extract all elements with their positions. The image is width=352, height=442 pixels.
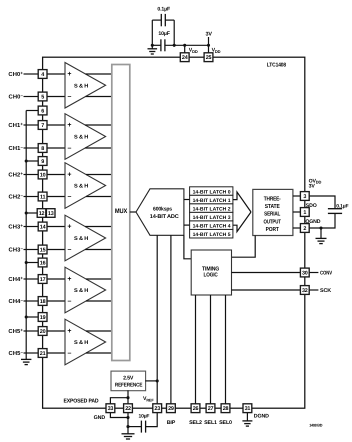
wire OGND ground stub — [320, 228, 322, 238]
svg-text:10µF: 10µF — [158, 31, 169, 37]
svg-text:16: 16 — [40, 261, 46, 267]
ground (pin22) — [122, 433, 135, 435]
svg-text:3V: 3V — [309, 184, 316, 190]
pin 17 — [38, 275, 47, 284]
pin 22 — [124, 404, 133, 413]
wire cap to pin2 — [309, 213, 335, 228]
wire port to pin2 — [293, 227, 301, 229]
wire bus stub y161 — [26, 160, 38, 162]
svg-text:VDD: VDD — [212, 48, 221, 54]
wire bus stub y262.5 — [26, 262, 38, 264]
svg-text:SEL2: SEL2 — [189, 420, 202, 426]
wire 0.1uF left lead — [152, 19, 161, 21]
wire S&H4 out- — [85, 249, 112, 251]
junction pin25 rail — [207, 44, 210, 47]
junction pin24 rail — [183, 44, 186, 47]
pin 1 — [300, 208, 309, 217]
wire cap10u left lead — [128, 426, 141, 428]
svg-text:BIP: BIP — [167, 420, 176, 426]
wire stub pin24 — [184, 45, 186, 53]
svg-text:STATE: STATE — [265, 203, 280, 210]
wire label CH0 to pin — [24, 73, 39, 75]
svg-text:14-BIT LATCH 5: 14-BIT LATCH 5 — [193, 232, 231, 238]
svg-text:10: 10 — [40, 173, 46, 179]
svg-text:S & H: S & H — [74, 340, 88, 346]
wire pin31 gnd stub — [246, 413, 248, 421]
wire 0.1uF right lead — [165, 19, 174, 21]
pin 16 — [38, 258, 47, 267]
svg-text:7: 7 — [41, 123, 44, 129]
svg-text:30: 30 — [302, 271, 308, 277]
wire S&H6 out- — [86, 352, 112, 354]
svg-text:S & H: S & H — [74, 135, 88, 141]
wire cap10u right lead — [146, 413, 158, 427]
svg-text:28: 28 — [223, 406, 229, 412]
svg-text:–: – — [68, 94, 72, 101]
op-amp S&H 4 — [65, 215, 106, 261]
pin 33 GND — [106, 404, 115, 413]
pin 12 — [37, 209, 46, 218]
svg-text:0.1µF: 0.1µF — [157, 7, 170, 13]
junction bus y213 — [25, 211, 28, 214]
svg-text:33: 33 — [108, 406, 114, 412]
pin 31 DGND — [243, 404, 252, 413]
wire pin18 to S&H — [47, 300, 65, 302]
pin 6 — [38, 106, 47, 115]
svg-text:9: 9 — [41, 159, 44, 165]
svg-text:+: + — [67, 224, 71, 231]
svg-text:OUTPUT: OUTPUT — [264, 218, 282, 225]
svg-text:SEL1: SEL1 — [204, 420, 217, 426]
svg-text:2.5V: 2.5V — [123, 376, 134, 382]
svg-text:19: 19 — [40, 315, 46, 321]
wire pin20 to S&H — [47, 330, 65, 332]
MUX block — [112, 65, 130, 361]
pin 14 — [38, 222, 47, 231]
svg-text:–: – — [68, 298, 72, 305]
wire pin32 stub — [309, 289, 318, 291]
junction OGND — [319, 226, 322, 229]
pin 32 — [300, 286, 309, 295]
svg-text:8: 8 — [41, 146, 44, 152]
svg-text:27: 27 — [208, 406, 214, 412]
wire right node up — [173, 20, 175, 46]
svg-text:CONV: CONV — [320, 271, 332, 277]
svg-text:10µF: 10µF — [138, 413, 149, 419]
op-amp S&H 2 — [65, 114, 106, 160]
wire left node up — [151, 20, 153, 46]
block 2.5V reference — [111, 371, 146, 391]
ground (common bus) — [21, 358, 31, 360]
wire pin33 up stub — [110, 398, 128, 404]
svg-text:DGND: DGND — [254, 414, 269, 420]
pin 5 — [38, 92, 47, 101]
wire timing to pin30 — [232, 272, 301, 274]
wire label CH1 to pin — [24, 124, 39, 126]
svg-text:0.1µF: 0.1µF — [336, 203, 348, 209]
pin 4 — [38, 70, 47, 79]
pin 23 VREF — [153, 404, 162, 413]
register 14-BIT LATCH 1 — [190, 195, 233, 204]
wire VDD rail right segment — [165, 44, 209, 46]
wire pin4 to S&H — [47, 73, 65, 75]
svg-text:29: 29 — [168, 406, 174, 412]
register 14-BIT LATCH 5 — [190, 229, 233, 238]
ground (OGND) — [316, 237, 327, 239]
pin 10 — [38, 170, 47, 179]
wire S&H1 out+ — [86, 73, 112, 75]
svg-text:14-BIT LATCH 1: 14-BIT LATCH 1 — [193, 198, 231, 204]
junction pin22 a — [126, 416, 129, 419]
svg-text:12: 12 — [39, 211, 45, 217]
pin 21 — [38, 349, 47, 358]
wire port to timing — [232, 236, 256, 258]
svg-text:S & H: S & H — [74, 288, 88, 294]
svg-text:14-BIT LATCH 3: 14-BIT LATCH 3 — [193, 215, 231, 221]
svg-text:+: + — [67, 328, 71, 335]
wire timing to pin32 — [232, 289, 301, 291]
wire MUX to ADC — [130, 211, 137, 213]
pin 28 SEL0 — [221, 404, 230, 413]
junction bus y262.5 — [25, 261, 28, 264]
junction bus y161 — [25, 159, 28, 162]
svg-text:22: 22 — [125, 406, 131, 412]
capacitor 0.1uF (top) — [160, 14, 162, 26]
svg-text:14-BIT ADC: 14-BIT ADC — [150, 214, 179, 220]
wire pin10 to S&H — [47, 174, 65, 176]
wire reference gnd down — [127, 390, 129, 404]
pin 20 — [38, 327, 47, 336]
svg-text:–: – — [68, 247, 72, 254]
wire label CH2 to pin — [24, 196, 39, 198]
svg-text:24: 24 — [182, 55, 188, 61]
block three-state serial output port — [253, 189, 293, 235]
svg-text:18: 18 — [40, 299, 46, 305]
svg-text:EXPOSED PAD: EXPOSED PAD — [64, 399, 99, 405]
wire gnd stub top — [151, 45, 153, 49]
pin 9 — [38, 157, 47, 166]
junction VREF — [156, 379, 159, 382]
svg-text:REFERENCE: REFERENCE — [115, 382, 143, 388]
svg-text:31: 31 — [245, 406, 251, 412]
register 14-BIT LATCH 2 — [190, 204, 233, 213]
svg-text:SEL0: SEL0 — [219, 420, 232, 426]
wire S&H1 out- — [86, 96, 112, 98]
ground (DGND) — [242, 420, 252, 422]
pin 11 — [38, 192, 47, 201]
pin 18 — [38, 297, 47, 306]
wire timing to SEL1 — [210, 295, 212, 404]
svg-text:3: 3 — [303, 194, 306, 200]
svg-text:PORT: PORT — [266, 226, 280, 233]
block timing logic — [191, 250, 231, 295]
wire 3V drop — [208, 37, 210, 53]
svg-text:+: + — [67, 71, 71, 78]
svg-text:6: 6 — [41, 109, 44, 115]
wire ADC to latch upper — [184, 199, 190, 201]
wire pin17 to S&H — [47, 278, 65, 280]
svg-text:+: + — [67, 276, 71, 283]
wire S&H5 out- — [86, 300, 112, 302]
wire label CH4 to pin — [24, 278, 39, 280]
svg-text:GND: GND — [94, 415, 106, 421]
svg-text:LTC1408: LTC1408 — [267, 62, 286, 68]
ADC 600ksps 14-BIT — [136, 189, 184, 236]
svg-text:26: 26 — [193, 406, 199, 412]
register 14-BIT LATCH 0 — [190, 187, 233, 196]
op-amp S&H 6 — [65, 319, 106, 365]
pin 19 — [38, 313, 47, 322]
wire bus stub y213 — [26, 212, 38, 214]
svg-text:11: 11 — [40, 195, 46, 201]
svg-text:2: 2 — [303, 226, 306, 232]
svg-text:23: 23 — [154, 406, 160, 412]
svg-text:S & H: S & H — [74, 184, 88, 190]
op-amp S&H 1 — [65, 63, 106, 109]
svg-text:4: 4 — [41, 72, 44, 78]
pin 29 BIP — [167, 404, 176, 413]
wire S&H2 out+ — [85, 124, 112, 126]
wire label CH5 to pin — [24, 352, 39, 354]
wire pin21 to S&H — [47, 352, 65, 354]
svg-text:600ksps: 600ksps — [153, 206, 172, 212]
wire label CH3 to pin — [24, 226, 39, 228]
pin 7 — [38, 121, 47, 130]
junction bus y317 — [25, 315, 28, 318]
svg-text:SCK: SCK — [320, 288, 331, 294]
pin 25 VDD — [204, 53, 213, 62]
wire label CH4 to pin — [24, 300, 39, 302]
pin 27 SEL1 — [206, 404, 215, 413]
capacitor 0.1uF (OVDD) — [328, 208, 342, 210]
wire pin14 to S&H — [47, 226, 65, 228]
svg-text:1408 BD: 1408 BD — [309, 423, 322, 427]
wire pin3 to cap — [309, 196, 335, 209]
op-amp S&H 5 — [65, 267, 106, 313]
wire pin30 stub — [309, 272, 318, 274]
junction pin22 b — [126, 425, 129, 428]
wire pin8 to S&H — [47, 147, 65, 149]
wire common bus vertical — [25, 111, 27, 360]
svg-text:S & H: S & H — [74, 236, 88, 242]
wire port to pin1 — [293, 211, 301, 213]
capacitor 10uF (VREF) — [140, 421, 142, 433]
wire timing to SEL0 — [225, 295, 227, 404]
svg-text:+: + — [67, 122, 71, 129]
svg-text:14: 14 — [40, 225, 46, 231]
wire label CH0 to pin — [24, 96, 39, 98]
svg-text:13: 13 — [48, 211, 54, 217]
wire latch bus lower — [233, 212, 251, 232]
wire bus stub y110.5 — [26, 110, 38, 112]
pin 24 VDD — [180, 53, 189, 62]
wire S&H3 out+ — [86, 174, 112, 176]
svg-text:32: 32 — [302, 288, 308, 294]
wire pin33 down stub — [110, 413, 128, 418]
svg-text:14-BIT LATCH 4: 14-BIT LATCH 4 — [193, 224, 231, 230]
wire label CH2 to pin — [24, 174, 39, 176]
wire reference to VREF — [145, 380, 157, 382]
junction right node — [173, 44, 176, 47]
svg-text:–: – — [68, 350, 72, 357]
svg-text:+: + — [67, 172, 71, 179]
wire S&H6 out+ — [86, 330, 112, 332]
wire label CH3 to pin — [24, 249, 39, 251]
wire pin11 to S&H — [47, 196, 65, 198]
capacitor 10uF (top) — [160, 39, 162, 51]
svg-text:14-BIT LATCH 2: 14-BIT LATCH 2 — [193, 206, 231, 212]
wire label CH5 to pin — [24, 330, 39, 332]
wire pin22 down — [127, 413, 129, 434]
wire VREF vertical — [156, 235, 158, 404]
wire latch bus upper — [233, 192, 251, 212]
wire S&H4 out+ — [85, 226, 112, 228]
svg-text:–: – — [68, 194, 72, 201]
svg-text:25: 25 — [206, 55, 212, 61]
svg-text:MUX: MUX — [115, 208, 128, 215]
junction left node — [151, 44, 154, 47]
svg-text:LOGIC: LOGIC — [204, 272, 219, 279]
svg-text:SERIAL: SERIAL — [264, 211, 281, 218]
pin 26 SEL2 — [191, 404, 200, 413]
wire label CH1 to pin — [24, 147, 39, 149]
register 14-BIT LATCH 3 — [190, 212, 233, 221]
svg-text:5: 5 — [41, 95, 44, 101]
pin 8 — [38, 144, 47, 153]
pin 13 — [46, 209, 55, 218]
wire S&H5 out+ — [86, 278, 112, 280]
svg-text:15: 15 — [40, 248, 46, 254]
pin 3 — [300, 192, 309, 201]
junction pin22 top — [126, 396, 129, 399]
svg-text:21: 21 — [40, 351, 46, 357]
wire S&H3 out- — [86, 196, 112, 198]
wire pin5 to S&H — [47, 96, 65, 98]
svg-text:20: 20 — [40, 329, 46, 335]
wire ADC to latch lower — [184, 224, 190, 226]
svg-text:14-BIT LATCH 0: 14-BIT LATCH 0 — [193, 189, 231, 195]
wire pin15 to S&H — [47, 249, 65, 251]
svg-text:–: – — [68, 145, 72, 152]
wire VDD rail left segment — [152, 44, 161, 46]
svg-text:THREE-: THREE- — [264, 196, 281, 202]
pin 30 — [300, 268, 309, 277]
svg-text:VDD: VDD — [189, 48, 198, 54]
svg-text:3V: 3V — [206, 31, 213, 37]
svg-text:S & H: S & H — [74, 83, 88, 89]
ground (top bypass) — [148, 48, 158, 50]
svg-text:17: 17 — [40, 277, 46, 283]
register 14-BIT LATCH 4 — [190, 221, 233, 230]
wire timing to SEL2 — [195, 295, 197, 404]
wire ADC to timing — [184, 235, 191, 258]
pin 15 — [38, 245, 47, 254]
op-amp S&H 3 — [65, 163, 106, 209]
wire BIP vertical — [170, 235, 172, 404]
wire S&H2 out- — [85, 147, 112, 149]
pin 2 — [300, 224, 309, 233]
svg-text:1: 1 — [303, 210, 306, 216]
wire port to pin3 — [293, 195, 301, 197]
wire pin7 to S&H — [47, 124, 65, 126]
wire bus stub y317 — [26, 316, 38, 318]
IC outline LTC1408 — [43, 57, 305, 408]
